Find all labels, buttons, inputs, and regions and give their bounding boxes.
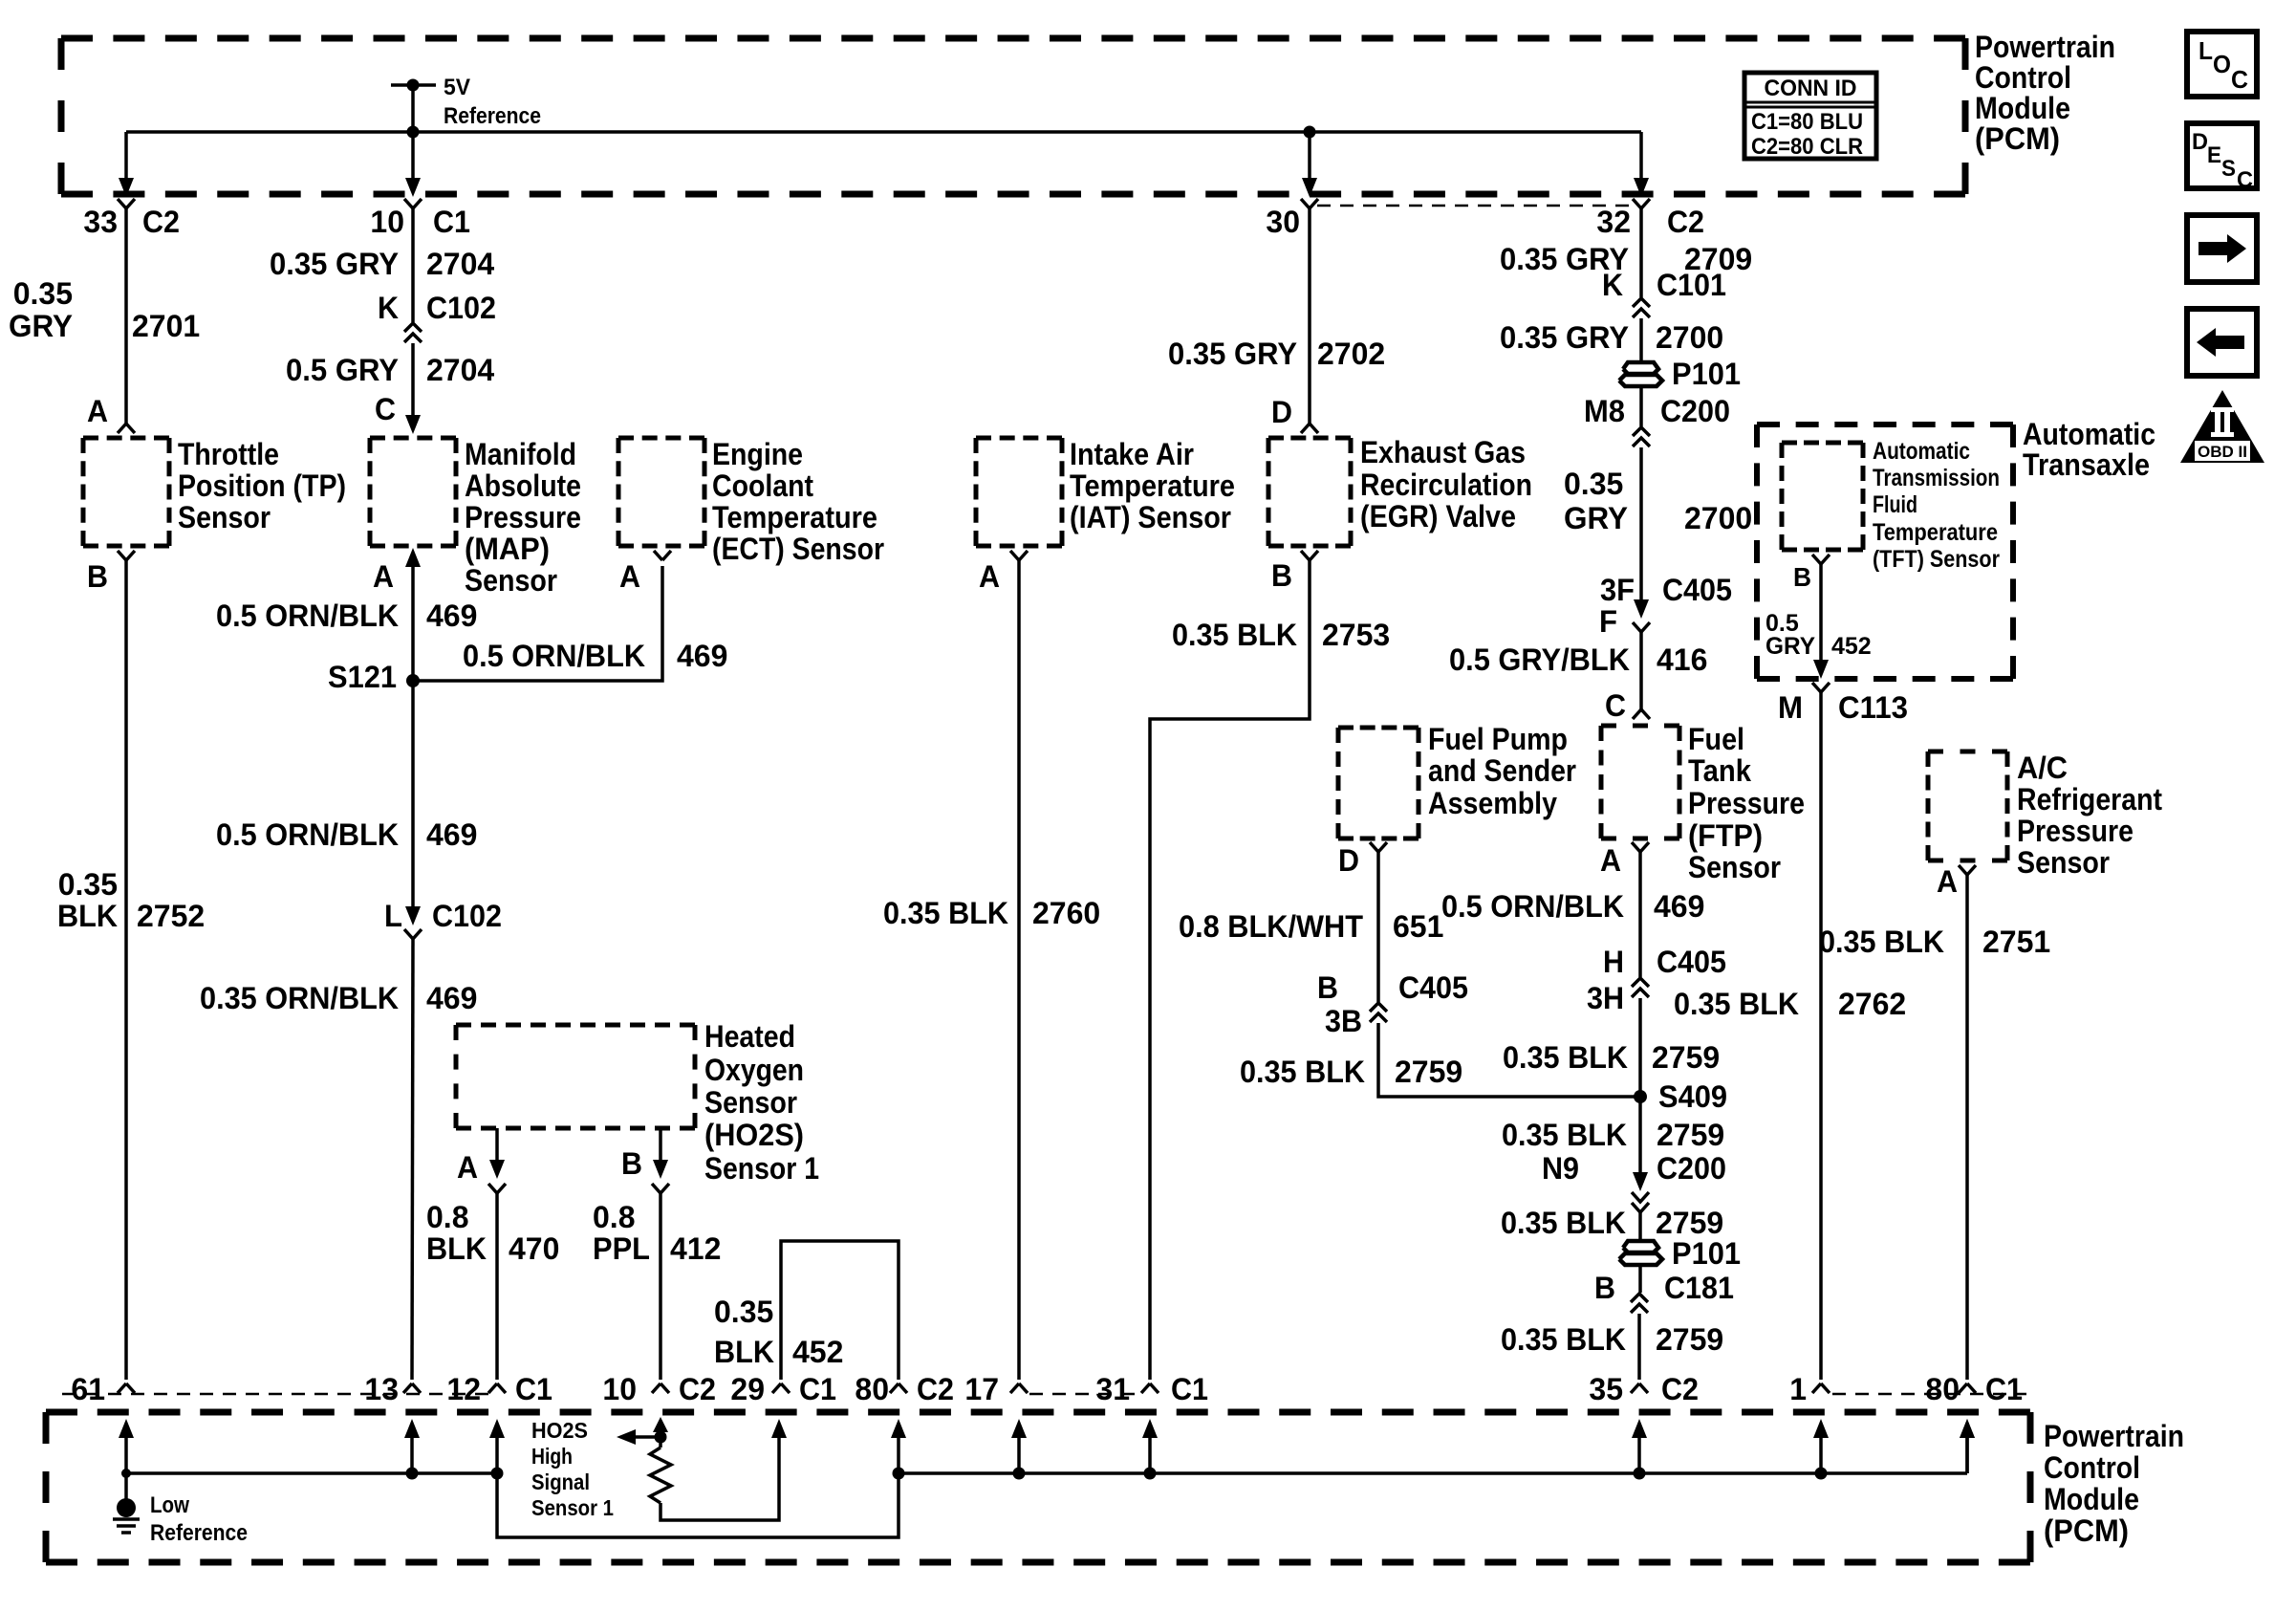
wire pin stem into PCM at x=520 (489, 1419, 505, 1473)
svg-text:0.5 ORN/BLK: 0.5 ORN/BLK (216, 599, 399, 633)
svg-text:13: 13 (364, 1372, 399, 1406)
svg-text:2759: 2759 (1656, 1206, 1723, 1240)
svg-text:0.35 BLK: 0.35 BLK (1501, 1206, 1626, 1240)
connector C113 pin M (1778, 683, 1908, 725)
thin dashed connector line pins 1-80 (1832, 1393, 2026, 1396)
Automatic Transmission Fluid Temperature (TFT) Sensor box (1782, 443, 1863, 550)
svg-text:A/C: A/C (2017, 751, 2068, 785)
svg-text:35: 35 (1589, 1372, 1623, 1406)
svg-text:L: L (2199, 36, 2213, 65)
wire 2702 pin 30 to EGR D (1308, 208, 1311, 424)
PCM label (bottom right) (2044, 1419, 2184, 1548)
A/C sensor label (2017, 751, 2162, 880)
svg-text:0.35 BLK: 0.35 BLK (1240, 1055, 1365, 1089)
pin 80 C1 connector (1925, 1372, 2023, 1406)
svg-text:Signal: Signal (531, 1469, 590, 1494)
svg-text:C: C (1605, 688, 1626, 723)
grommet P101 (upper) (1619, 357, 1741, 391)
pin A A/C sensor (1937, 864, 1976, 899)
svg-text:(MAP): (MAP) (465, 532, 550, 566)
svg-text:0.35 BLK: 0.35 BLK (883, 896, 1008, 930)
svg-text:0.35: 0.35 (714, 1295, 773, 1329)
svg-text:469: 469 (677, 639, 727, 673)
svg-text:Recirculation: Recirculation (1360, 468, 1532, 502)
junction dot bus pin 12 (491, 1468, 504, 1480)
svg-text:B: B (1594, 1271, 1615, 1305)
pin 17 connector (964, 1372, 1028, 1406)
wire 2751 A/C A to pin 80 C1 (1965, 875, 1969, 1380)
wire 469 S121 to ECT sensor A (413, 566, 662, 681)
pin 31 C1 connector (1095, 1372, 1208, 1406)
svg-text:A: A (373, 559, 394, 594)
label 0.5 GRY 452 (1765, 610, 1872, 660)
svg-text:61: 61 (71, 1372, 105, 1406)
svg-text:Module: Module (1975, 91, 2070, 125)
svg-text:HO2S: HO2S (531, 1418, 588, 1443)
svg-text:0.35 BLK: 0.35 BLK (1503, 1040, 1628, 1075)
svg-text:Position (TP): Position (TP) (178, 468, 346, 503)
wire 2759 C181 to pin 35 (1637, 1314, 1641, 1380)
wire 2700 C101 to P101 (1639, 318, 1643, 361)
svg-text:A: A (1937, 864, 1958, 899)
svg-text:12: 12 (446, 1372, 481, 1406)
pin C FTP sensor (1605, 688, 1650, 723)
svg-text:Powertrain: Powertrain (1975, 30, 2115, 64)
wire 2701 from pin 33 to TP sensor A (124, 208, 128, 424)
svg-text:0.35 BLK: 0.35 BLK (1674, 987, 1799, 1021)
svg-text:A: A (1600, 843, 1621, 878)
wire 452 loop pin 29 C1 to pin 80 C2 (781, 1241, 899, 1380)
svg-text:0.35 GRY: 0.35 GRY (1168, 337, 1297, 371)
svg-text:470: 470 (509, 1231, 559, 1266)
icon forward arrow box (2187, 215, 2257, 282)
svg-text:10: 10 (370, 205, 404, 239)
pin A FTP sensor (1600, 842, 1649, 878)
pin B TP sensor (87, 551, 135, 594)
svg-text:C2=80 CLR: C2=80 CLR (1751, 134, 1863, 160)
svg-text:(TFT) Sensor: (TFT) Sensor (1873, 546, 2000, 573)
svg-text:(PCM): (PCM) (1975, 121, 2060, 156)
connector C200 pin N9 (1542, 1151, 1726, 1212)
thin dashed connector line pins 61-12 (62, 1393, 490, 1396)
svg-text:L: L (384, 899, 402, 933)
label 0.35 BLK 2759 (fuel pump leg) (1240, 1055, 1462, 1089)
svg-text:K: K (378, 291, 399, 325)
svg-text:C1: C1 (1985, 1372, 2023, 1406)
svg-text:B: B (87, 559, 108, 594)
svg-text:Assembly: Assembly (1428, 786, 1557, 820)
wire 2759 C405 to S409 (1638, 998, 1642, 1097)
svg-text:0.35 ORN/BLK: 0.35 ORN/BLK (200, 981, 399, 1015)
pin 33 C2 connector (83, 199, 180, 239)
svg-text:BLK: BLK (57, 899, 118, 933)
svg-text:2759: 2759 (1656, 1322, 1723, 1357)
svg-text:Sensor: Sensor (178, 500, 271, 534)
label 0.35 BLK 2759 (above S409) (1503, 1040, 1720, 1075)
Fuel Tank Pressure (FTP) Sensor box (1601, 726, 1679, 838)
svg-text:M: M (1778, 690, 1803, 725)
pin 35 C2 connector (1589, 1372, 1699, 1406)
svg-text:D: D (2192, 129, 2208, 155)
label 0.5 ORN/BLK 469 (MAP A) (216, 599, 477, 633)
wire pin stem into PCM at x=1066 (1011, 1419, 1027, 1473)
CONN ID table (1744, 73, 1876, 160)
svg-text:30: 30 (1266, 205, 1300, 239)
connector C101 pin K (1602, 268, 1726, 317)
wire PCM pin 10 stub (405, 132, 421, 197)
svg-text:D: D (1271, 395, 1292, 429)
svg-text:C: C (2237, 167, 2253, 193)
node S409 splice (1634, 1079, 1727, 1114)
label 0.8 PPL 412 (593, 1200, 721, 1266)
svg-text:2701: 2701 (132, 309, 200, 343)
svg-text:and Sender: and Sender (1428, 753, 1576, 788)
wire 469 S121 down to C102 L (411, 681, 415, 910)
wire pin stem into PCM at x=1203 (1142, 1419, 1158, 1473)
svg-text:GRY: GRY (9, 309, 73, 343)
svg-text:A: A (87, 394, 108, 428)
svg-text:B: B (1793, 562, 1811, 592)
connector C181 pin B (1594, 1265, 1734, 1313)
svg-text:2759: 2759 (1657, 1118, 1724, 1152)
svg-text:S: S (2221, 156, 2236, 182)
pin 13 connector (364, 1372, 421, 1406)
connector C102 pin L (384, 899, 502, 939)
svg-text:0.35: 0.35 (58, 867, 118, 902)
svg-text:2759: 2759 (1652, 1040, 1720, 1075)
wire 452 TFT B to C113 (1813, 564, 1829, 679)
node 5V reference tap (391, 75, 541, 129)
label 0.35 BLK 2751 (1819, 925, 2050, 959)
svg-text:BLK: BLK (714, 1335, 774, 1369)
label 0.5 GRY 2704 (286, 353, 494, 387)
label 0.35 GRY 2701 (9, 276, 200, 343)
svg-text:B: B (1317, 970, 1338, 1005)
wire PCM pin 32 stub (1634, 132, 1649, 197)
pin A ECT sensor (619, 551, 671, 594)
svg-text:OBD II: OBD II (2198, 443, 2247, 461)
svg-text:2753: 2753 (1322, 618, 1390, 652)
wire 469 MAP A to S121 (411, 567, 415, 681)
pin 30 connector (1266, 199, 1318, 239)
wire 2760 IAT A to pin 17 (1017, 560, 1021, 1380)
svg-text:C2: C2 (917, 1372, 954, 1406)
svg-text:PPL: PPL (593, 1231, 650, 1266)
wire PCM pin 33 stub (119, 132, 134, 197)
svg-text:(FTP): (FTP) (1688, 818, 1763, 853)
grommet P101 (lower) (1619, 1236, 1741, 1271)
label 0.35 GRY 2700 (1500, 320, 1723, 355)
svg-text:P101: P101 (1672, 357, 1741, 391)
connector C102 pin K (378, 291, 496, 342)
svg-text:B: B (621, 1146, 642, 1181)
label 0.35 GRY 2704 (270, 247, 494, 281)
svg-text:C200: C200 (1657, 1151, 1726, 1186)
svg-text:C2: C2 (142, 205, 180, 239)
svg-text:(ECT) Sensor: (ECT) Sensor (712, 532, 884, 566)
junction dot bus pin 13 (406, 1468, 419, 1480)
svg-text:Intake Air: Intake Air (1070, 437, 1194, 471)
Fuel Pump and Sender Assembly box (1338, 728, 1419, 838)
wire pin stem into PCM at x=940 (891, 1419, 906, 1473)
svg-text:5V: 5V (444, 75, 470, 100)
svg-text:2700: 2700 (1684, 501, 1752, 535)
wire 469 FTP A down (1638, 852, 1642, 977)
IAT sensor label (1070, 437, 1235, 534)
svg-text:Reference: Reference (444, 103, 541, 129)
svg-text:469: 469 (1654, 889, 1704, 924)
svg-text:P101: P101 (1672, 1236, 1741, 1271)
svg-text:C1: C1 (515, 1372, 552, 1406)
svg-text:29: 29 (730, 1372, 765, 1406)
label 0.35 BLK 2753 (1172, 618, 1390, 652)
svg-text:Fluid: Fluid (1873, 491, 1917, 518)
svg-text:(EGR) Valve: (EGR) Valve (1360, 499, 1516, 533)
svg-text:0.5 ORN/BLK: 0.5 ORN/BLK (216, 817, 399, 852)
svg-text:Throttle: Throttle (178, 437, 279, 471)
svg-text:(IAT) Sensor: (IAT) Sensor (1070, 500, 1231, 534)
svg-text:A: A (619, 559, 640, 594)
MAP sensor label (465, 437, 581, 598)
connector C200 pin M8 (1584, 394, 1730, 446)
svg-text:Oxygen: Oxygen (704, 1053, 804, 1087)
svg-text:0.35: 0.35 (1564, 467, 1623, 501)
svg-text:469: 469 (426, 817, 477, 852)
label 0.35 GRY 2709 (1500, 242, 1752, 276)
Throttle Position (TP) Sensor box (83, 438, 169, 546)
Powertrain Control Module (PCM) bottom box (dashed) (46, 1412, 2030, 1562)
svg-text:C1: C1 (799, 1372, 836, 1406)
pin 1 connector (1789, 1372, 1830, 1406)
svg-text:Coolant: Coolant (712, 468, 813, 503)
wire 5V reference rail (inside PCM) (126, 130, 1641, 134)
resistor HO2S high signal (650, 1448, 671, 1503)
svg-text:C181: C181 (1664, 1271, 1734, 1305)
pin 80 C2 connector (855, 1372, 954, 1406)
fuel pump label (1428, 722, 1576, 820)
label 0.35 GRY 2702 (1168, 337, 1385, 371)
node S121 splice (328, 660, 420, 694)
svg-text:C405: C405 (1657, 945, 1726, 979)
label 0.35 ORN/BLK 469 (200, 981, 477, 1015)
svg-text:Transmission: Transmission (1873, 465, 2000, 491)
svg-text:D: D (1338, 843, 1359, 878)
svg-text:B: B (1271, 558, 1292, 593)
svg-text:Pressure: Pressure (1688, 786, 1805, 820)
pin 10 C1 connector (370, 199, 470, 239)
svg-text:Sensor: Sensor (2017, 845, 2110, 880)
svg-text:Manifold: Manifold (465, 437, 576, 471)
label 0.35 BLK 2752 (57, 867, 205, 933)
icon OBD II triangle (2180, 390, 2264, 463)
svg-text:2700: 2700 (1656, 320, 1723, 355)
svg-text:C1: C1 (1171, 1372, 1208, 1406)
svg-text:C2: C2 (679, 1372, 716, 1406)
svg-text:17: 17 (964, 1372, 999, 1406)
wire 2759 C405 to S409 (1378, 1023, 1640, 1097)
svg-text:2762: 2762 (1838, 987, 1906, 1021)
FTP sensor label (1688, 722, 1805, 884)
Engine Coolant Temperature (ECT) Sensor box (618, 438, 704, 546)
svg-text:32: 32 (1596, 205, 1631, 239)
connector C405 pins H/3H (1587, 945, 1726, 1015)
svg-text:CONN ID: CONN ID (1765, 76, 1857, 101)
svg-text:GRY: GRY (1564, 501, 1628, 535)
svg-text:3F: 3F (1600, 573, 1635, 607)
Intake Air Temperature (IAT) Sensor box (976, 438, 1062, 546)
svg-text:C1=80 BLU: C1=80 BLU (1751, 109, 1863, 135)
TP sensor label (178, 437, 346, 534)
svg-text:High: High (531, 1444, 573, 1469)
svg-text:0.5 ORN/BLK: 0.5 ORN/BLK (1441, 889, 1624, 924)
svg-text:452: 452 (792, 1335, 843, 1369)
svg-text:Automatic: Automatic (1873, 438, 1970, 465)
svg-text:80: 80 (1925, 1372, 1960, 1406)
svg-text:Sensor: Sensor (704, 1085, 797, 1120)
junction dot rail at EGR column (1304, 126, 1316, 139)
svg-text:K: K (1602, 268, 1623, 302)
svg-text:1: 1 (1789, 1372, 1807, 1406)
wire 2704 pin 10 to C102 (411, 208, 415, 322)
svg-text:10: 10 (602, 1372, 637, 1406)
svg-text:(HO2S): (HO2S) (704, 1118, 804, 1152)
wire 2700 C200 to C405 (1639, 447, 1643, 606)
svg-text:F: F (1599, 604, 1617, 639)
wire pin stem into PCM at x=1715 (1632, 1419, 1647, 1473)
label 0.5 GRY/BLK 416 (1449, 642, 1707, 677)
ECT sensor label (712, 437, 884, 566)
svg-text:2759: 2759 (1395, 1055, 1462, 1089)
svg-text:(PCM): (PCM) (2044, 1513, 2129, 1548)
svg-text:Control: Control (1975, 60, 2071, 95)
svg-text:Control: Control (2044, 1450, 2140, 1485)
svg-text:C1: C1 (433, 205, 470, 239)
wire pin 10 internal stem (653, 1417, 668, 1448)
icon DESC box (2187, 123, 2257, 193)
svg-text:O: O (2213, 50, 2231, 78)
label 0.35 BLK 2760 (883, 896, 1100, 930)
label 0.5 ORN/BLK 469 (ECT A) (463, 639, 727, 673)
label 0.8 BLK/WHT 651 (1179, 909, 1443, 944)
svg-text:0.35 GRY: 0.35 GRY (1500, 320, 1629, 355)
label 0.35 BLK 452 (714, 1295, 843, 1369)
Heated Oxygen Sensor (HO2S) box (456, 1025, 695, 1128)
ground Low Reference (113, 1469, 248, 1546)
svg-text:A: A (457, 1150, 478, 1185)
pin A MAP sensor (373, 548, 421, 594)
svg-text:M8: M8 (1584, 394, 1625, 428)
svg-text:Pressure: Pressure (465, 500, 581, 534)
wire 2700 P101 to C200 (1639, 386, 1643, 426)
wire pin stem into PCM at x=431 (404, 1419, 420, 1473)
svg-text:Sensor: Sensor (465, 563, 557, 598)
svg-text:2751: 2751 (1982, 925, 2050, 959)
Automatic Transaxle label (2023, 417, 2155, 482)
wire low reference bus (right segment) (899, 1471, 1967, 1475)
svg-text:Engine: Engine (712, 437, 803, 471)
wire 651 fuel pump D to C405 (1376, 852, 1380, 1002)
svg-text:Reference: Reference (150, 1520, 248, 1546)
svg-text:C102: C102 (432, 899, 502, 933)
pin A IAT sensor (979, 551, 1028, 594)
svg-text:BLK: BLK (426, 1231, 487, 1266)
PCM label (top right) (1975, 30, 2115, 156)
svg-text:C2: C2 (1661, 1372, 1699, 1406)
Manifold Absolute Pressure (MAP) Sensor box (370, 438, 456, 546)
label 0.35 BLK 2759 (above P101) (1501, 1206, 1723, 1240)
svg-text:33: 33 (83, 205, 118, 239)
signal direction arrow (left) (617, 1429, 661, 1445)
HO2S High Signal note (531, 1418, 614, 1520)
svg-text:3H: 3H (1587, 981, 1624, 1015)
svg-text:2760: 2760 (1032, 896, 1100, 930)
pin B EGR valve (1271, 551, 1318, 593)
pin A HO2S (457, 1128, 506, 1193)
wire 2762 C113 to pin 1 (1819, 692, 1823, 1380)
svg-text:C102: C102 (426, 291, 496, 325)
junction dot bus pin 31 (1144, 1468, 1157, 1480)
svg-text:Sensor 1: Sensor 1 (531, 1495, 614, 1520)
svg-text:31: 31 (1095, 1372, 1130, 1406)
svg-text:412: 412 (670, 1231, 721, 1266)
svg-text:Pressure: Pressure (2017, 814, 2134, 848)
svg-text:2704: 2704 (426, 353, 494, 387)
svg-text:0.5 GRY/BLK: 0.5 GRY/BLK (1449, 642, 1630, 677)
svg-text:2752: 2752 (137, 899, 205, 933)
wire PCM pin 30 stub (1302, 132, 1317, 197)
svg-text:Transaxle: Transaxle (2023, 447, 2150, 482)
svg-text:2704: 2704 (426, 247, 494, 281)
svg-text:C405: C405 (1398, 970, 1468, 1005)
wire 2759 S409 to C200 (1633, 1097, 1648, 1191)
wire 412 HO2S B to pin 10 (659, 1193, 662, 1380)
wire 470 HO2S A to pin 12 (495, 1193, 499, 1380)
svg-text:Module: Module (2044, 1482, 2139, 1516)
svg-text:C101: C101 (1657, 268, 1726, 302)
pin A TP sensor (87, 394, 135, 433)
svg-text:Tank: Tank (1688, 753, 1751, 788)
svg-text:C: C (375, 392, 396, 426)
svg-text:0.35 BLK: 0.35 BLK (1502, 1118, 1627, 1152)
wire low reference bus (left segment) (126, 1471, 497, 1475)
svg-text:Temperature: Temperature (1070, 468, 1235, 503)
svg-text:Exhaust Gas: Exhaust Gas (1360, 435, 1526, 469)
wire 2752 TP sensor B to pin 61 (124, 560, 128, 1380)
svg-text:0.8: 0.8 (593, 1200, 635, 1234)
svg-text:Refrigerant: Refrigerant (2017, 782, 2162, 816)
pin 32 C2 connector (1596, 199, 1704, 239)
connector C405 pins 3F/F (1599, 573, 1732, 639)
Powertrain Control Module (PCM) top box (dashed) (61, 38, 1965, 194)
wire pin stem into PCM at x=2058 (1960, 1419, 1975, 1473)
wire 2709 pin 32 to C101 (1639, 208, 1643, 297)
wire 2704 C102 to MAP sensor C (405, 343, 421, 434)
svg-text:80: 80 (855, 1372, 889, 1406)
svg-text:Fuel: Fuel (1688, 722, 1744, 756)
junction dot bus pin 80 C2 (893, 1468, 905, 1480)
svg-text:Heated: Heated (704, 1019, 795, 1054)
svg-text:0.35 BLK: 0.35 BLK (1819, 925, 1944, 959)
pin 10 C2 connector (602, 1372, 716, 1406)
svg-text:416: 416 (1657, 642, 1707, 677)
junction dot bus pin 1 (1815, 1468, 1828, 1480)
svg-text:Sensor 1: Sensor 1 (704, 1151, 819, 1186)
TFT sensor label (1873, 438, 2000, 573)
wire 2753 EGR B to pin 31 (1150, 560, 1310, 1380)
svg-text:N9: N9 (1542, 1151, 1579, 1186)
svg-text:S409: S409 (1658, 1079, 1727, 1114)
svg-text:Temperature: Temperature (1873, 519, 1998, 546)
